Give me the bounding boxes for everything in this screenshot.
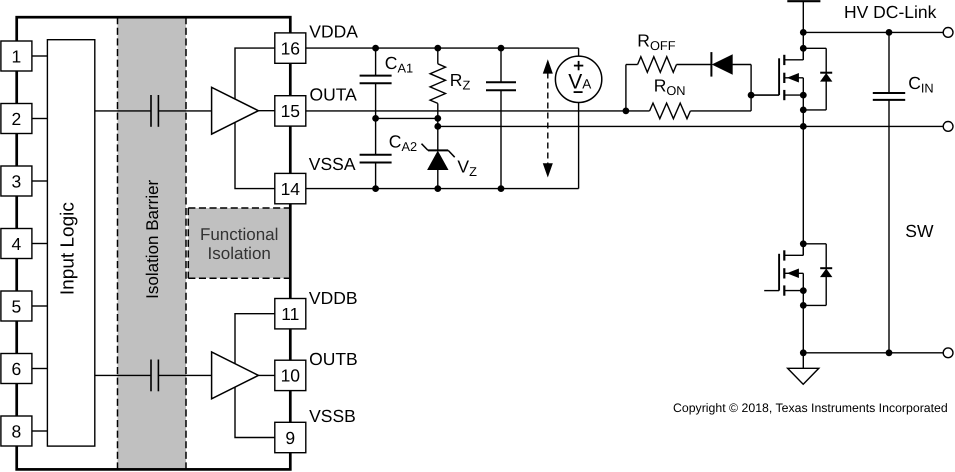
svg-text:Isolation Barrier: Isolation Barrier <box>143 179 162 298</box>
svg-text:3: 3 <box>12 171 22 191</box>
svg-text:HV DC-Link: HV DC-Link <box>844 2 937 22</box>
svg-text:VSSB: VSSB <box>309 406 356 426</box>
svg-text:4: 4 <box>12 234 22 254</box>
svg-text:Functional: Functional <box>200 225 278 244</box>
svg-text:Input Logic: Input Logic <box>57 202 78 295</box>
svg-text:10: 10 <box>281 366 301 386</box>
svg-text:5: 5 <box>12 296 22 316</box>
svg-text:SW: SW <box>905 221 934 241</box>
svg-text:14: 14 <box>281 179 301 199</box>
svg-text:Copyright © 2018, Texas Instru: Copyright © 2018, Texas Instruments Inco… <box>673 401 948 415</box>
svg-text:OUTA: OUTA <box>310 84 358 104</box>
svg-text:9: 9 <box>285 428 295 448</box>
svg-text:8: 8 <box>12 421 22 441</box>
svg-text:11: 11 <box>281 304 299 324</box>
svg-text:6: 6 <box>12 359 22 379</box>
svg-text:15: 15 <box>281 101 300 121</box>
svg-text:Isolation: Isolation <box>208 244 271 263</box>
svg-text:16: 16 <box>281 38 300 58</box>
svg-text:VDDA: VDDA <box>309 22 358 42</box>
svg-text:1: 1 <box>12 46 22 66</box>
svg-text:OUTB: OUTB <box>309 349 358 369</box>
svg-text:VSSA: VSSA <box>309 154 356 174</box>
svg-text:2: 2 <box>12 109 22 129</box>
svg-text:VDDB: VDDB <box>309 288 358 308</box>
